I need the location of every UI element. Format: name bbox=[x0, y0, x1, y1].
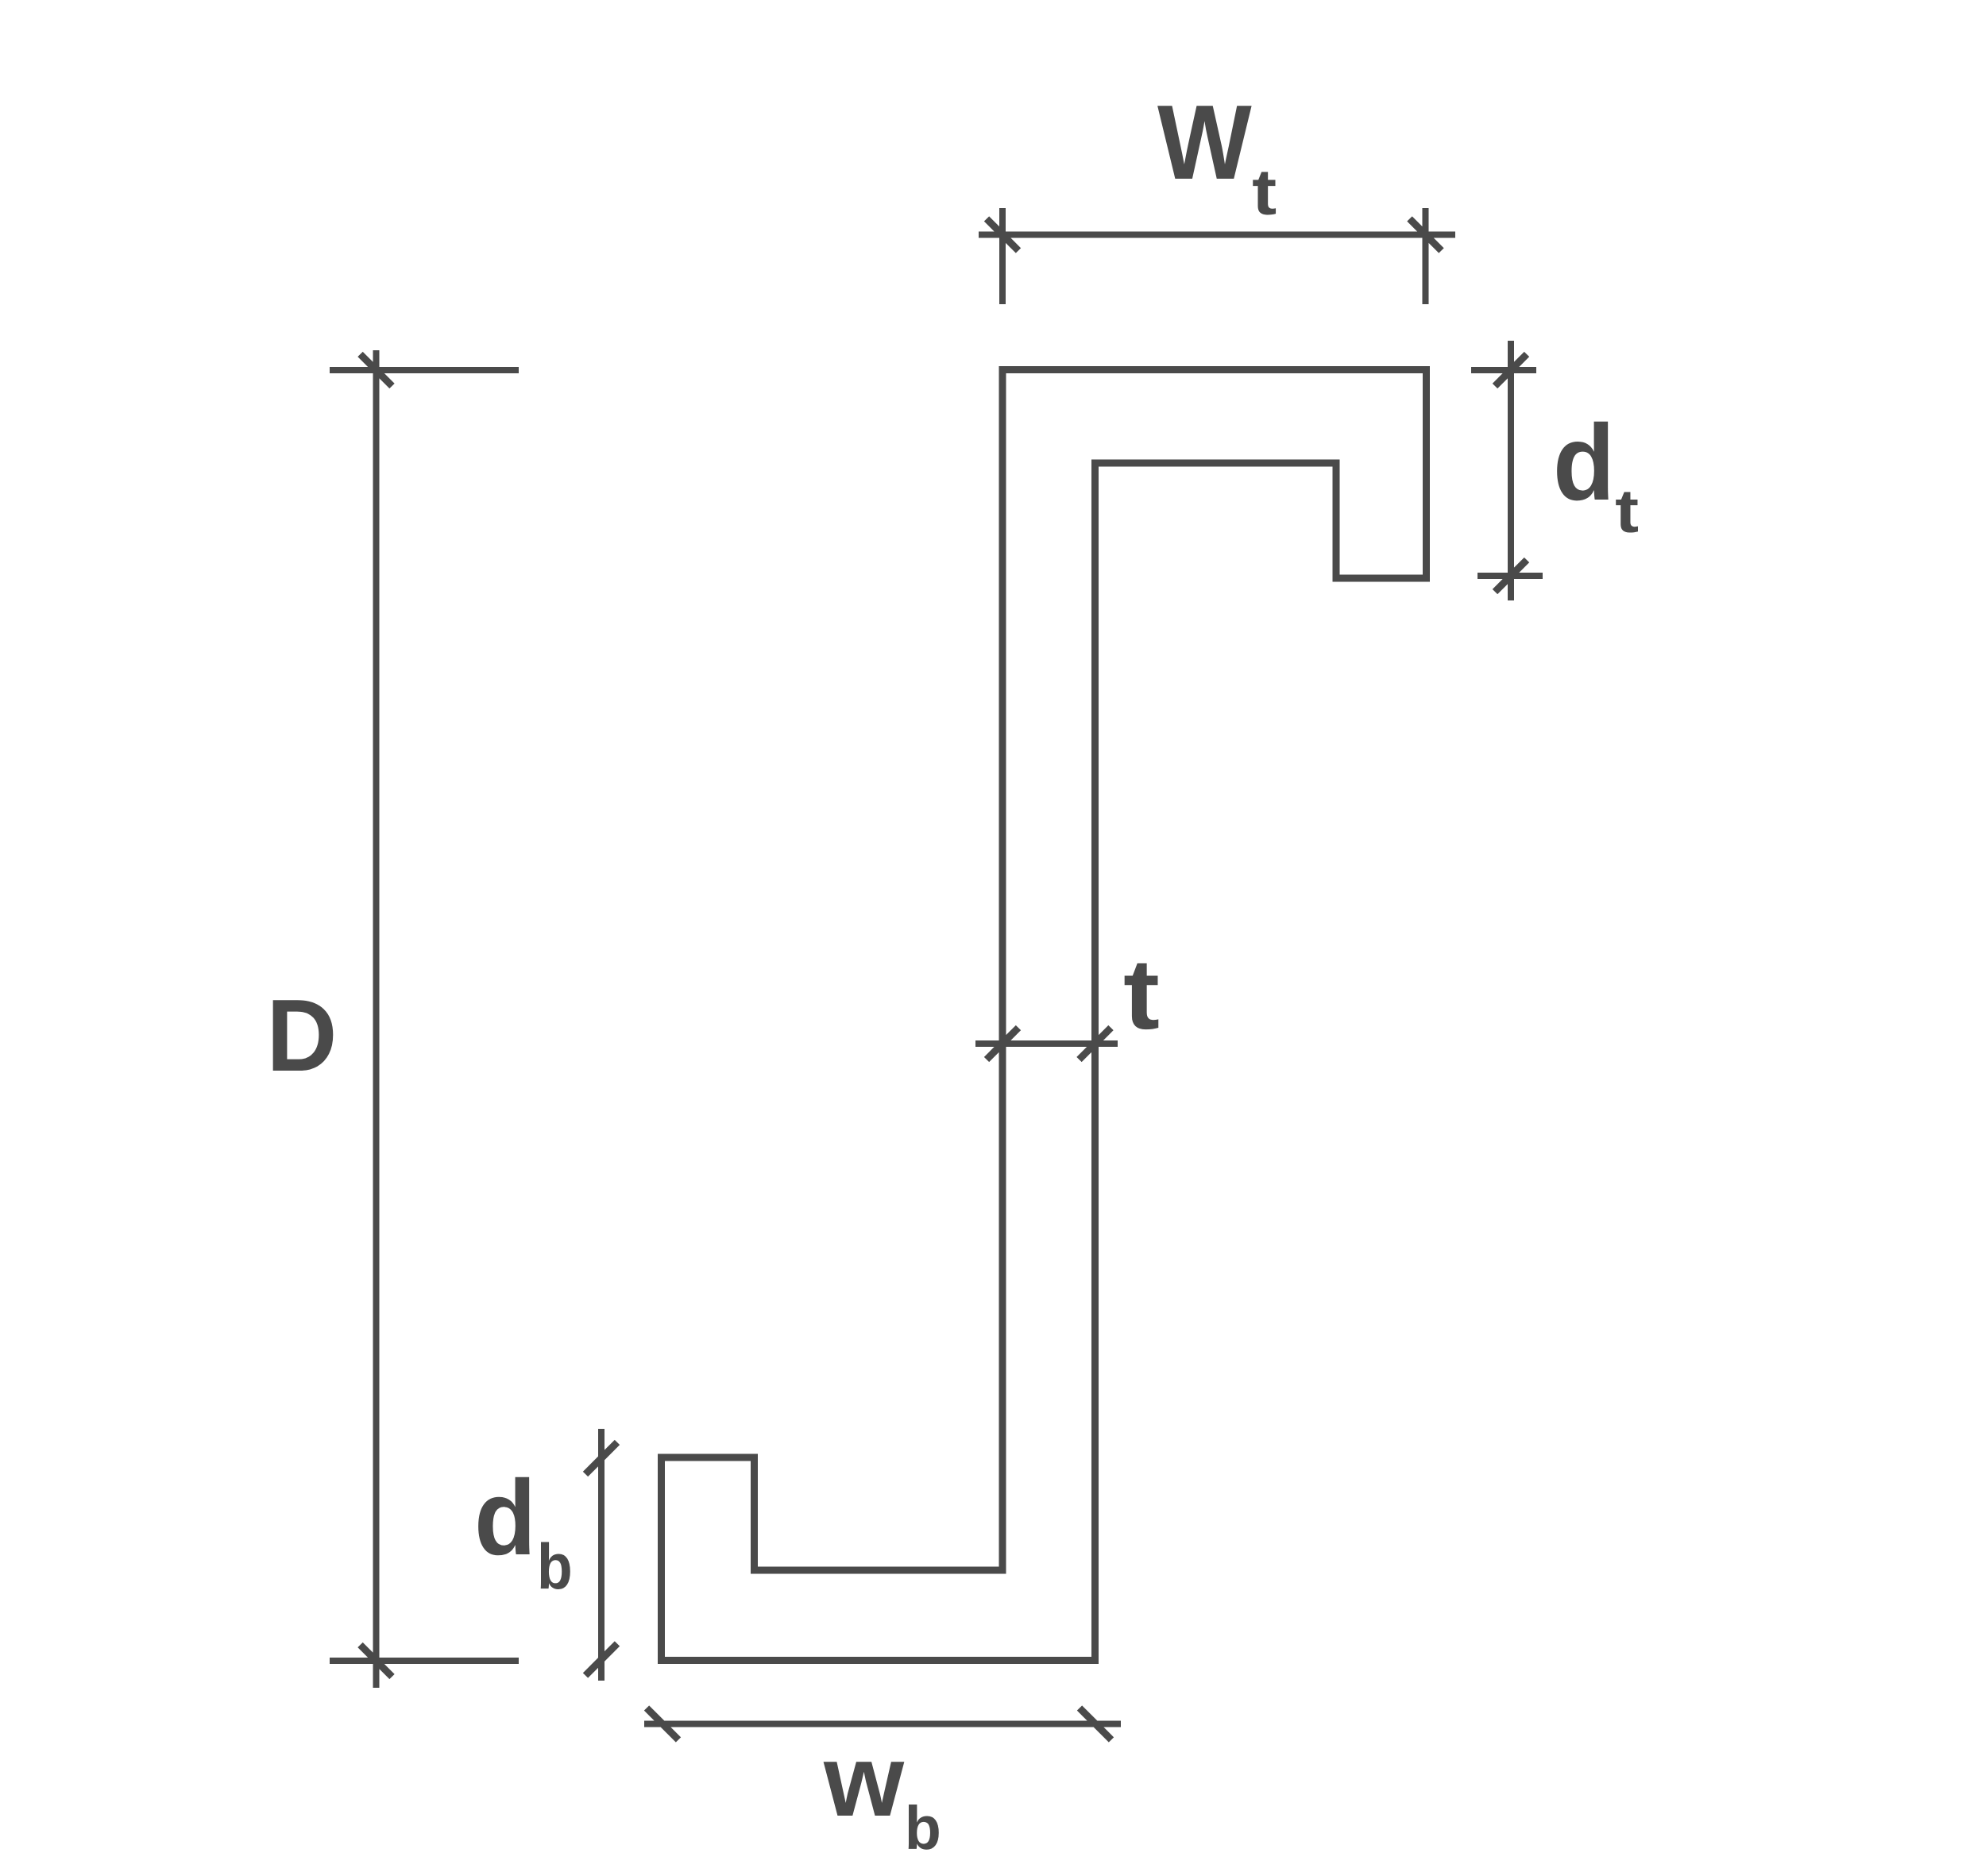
Z-profile outline bbox=[662, 370, 1427, 1661]
svg-text:d: d bbox=[1553, 403, 1615, 523]
dimension dt: dim line bbox=[1508, 341, 1514, 600]
dimension D: bottom tick bbox=[361, 1645, 392, 1677]
dimension dt: top tick bbox=[1495, 354, 1527, 386]
dimension dt: bottom tick bbox=[1495, 560, 1527, 592]
dimension db: dim line bbox=[598, 1429, 605, 1681]
svg-text:b: b bbox=[537, 1531, 573, 1603]
dimension Wb: left tick bbox=[647, 1708, 678, 1740]
dimension D: bottom extension line bbox=[330, 1658, 519, 1664]
svg-text:b: b bbox=[905, 1794, 941, 1862]
svg-text:W: W bbox=[1157, 84, 1252, 202]
svg-text:d: d bbox=[474, 1457, 536, 1577]
dimension t: dim line bbox=[975, 1040, 1118, 1047]
dimension db: top tick bbox=[585, 1442, 617, 1474]
svg-text:t: t bbox=[1252, 156, 1277, 228]
svg-text:w: w bbox=[823, 1724, 905, 1838]
dimension Wt: left extension line bbox=[999, 208, 1006, 304]
svg-text:t: t bbox=[1123, 938, 1160, 1050]
dimension dt: top extension line bbox=[1471, 367, 1536, 373]
dimension D: dim line bbox=[373, 350, 380, 1688]
dimension D: top tick bbox=[361, 354, 392, 386]
svg-text:t: t bbox=[1615, 477, 1639, 546]
dimension Wt: right extension line bbox=[1423, 208, 1429, 304]
dimension Wt: right tick bbox=[1410, 219, 1442, 251]
dimension Wt: dim line bbox=[979, 232, 1455, 238]
dimension D: top extension line bbox=[330, 367, 519, 373]
dimension t: right tick bbox=[1080, 1028, 1111, 1060]
dimension Wb: dim line bbox=[644, 1721, 1121, 1727]
dimension t: left tick bbox=[987, 1028, 1018, 1060]
dimension dt: bottom extension line bbox=[1477, 573, 1543, 579]
dimension Wt: left tick bbox=[987, 219, 1018, 251]
svg-text:D: D bbox=[266, 978, 337, 1092]
dimension db: bottom tick bbox=[585, 1644, 617, 1676]
dimension Wb: right tick bbox=[1080, 1708, 1111, 1740]
